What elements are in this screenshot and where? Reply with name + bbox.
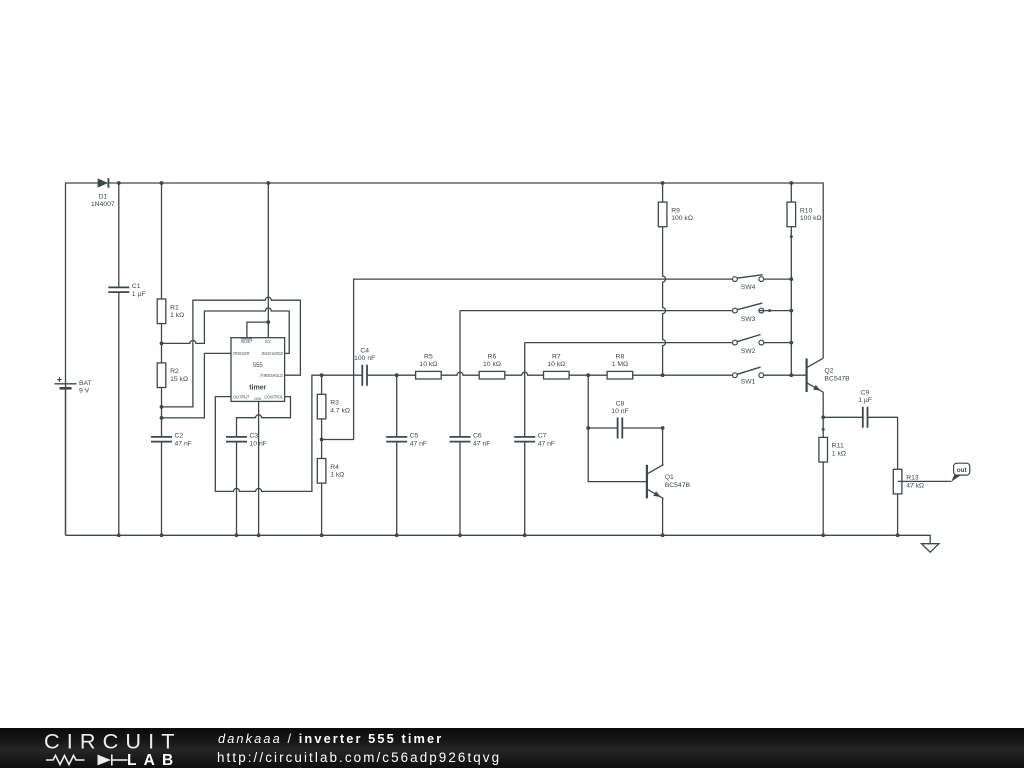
switch SW1 (733, 367, 764, 385)
node junction R8/R9/C8 (661, 373, 665, 377)
capacitor C3 (226, 433, 267, 448)
wire R9 top lead (662, 183, 664, 202)
wire R3/R4 junction to SW4 (322, 279, 733, 439)
wire V+ top rail (left segment to diode) (66, 183, 98, 535)
wire main line C4 to R5 (322, 374, 363, 376)
wire SW2 right wire (764, 342, 792, 344)
wire R3/R4 interlead (321, 419, 323, 459)
node junction OUTPUT riser / R3 / main line (320, 373, 324, 377)
svg-text:SW4: SW4 (741, 284, 756, 291)
svg-text:C7: C7 (538, 433, 547, 440)
svg-text:10 nF: 10 nF (611, 408, 628, 415)
node node R2/C2 trigger tap (160, 416, 164, 420)
svg-text:1N4007: 1N4007 (91, 201, 115, 208)
svg-text:555: 555 (253, 362, 263, 369)
svg-text:LAB: LAB (127, 752, 180, 768)
svg-text:R4: R4 (330, 464, 339, 471)
node junction 555 GND / ground rail (257, 533, 261, 537)
wire V+ top rail (diode to right end, down to Q2 collector) (108, 183, 823, 358)
svg-text:1 µF: 1 µF (132, 291, 146, 298)
svg-text:47 nF: 47 nF (175, 440, 192, 447)
svg-text:C2: C2 (175, 433, 184, 440)
svg-text:C6: C6 (473, 433, 482, 440)
svg-text:C3: C3 (250, 433, 259, 440)
node junction SW4 / bus (789, 277, 793, 281)
resistor R11 (819, 437, 846, 462)
footer title text (218, 732, 443, 745)
footer url text (217, 751, 501, 765)
node junction R9 / V+ rail (661, 181, 665, 185)
capacitor C7 (514, 433, 555, 448)
node junction VCC riser / V+ rail (266, 181, 270, 185)
svg-text:SW1: SW1 (741, 379, 756, 386)
svg-text:10 kΩ: 10 kΩ (547, 361, 565, 368)
node node C8 right / Q1 collector (661, 426, 665, 430)
resistor R9 (658, 202, 693, 227)
node junction C1 / ground rail (117, 533, 121, 537)
resistor R10 (787, 202, 822, 227)
wire R10 bottom lead / switch bus (790, 227, 792, 375)
svg-text:R9: R9 (671, 207, 680, 214)
wire R11 bottom lead (822, 462, 824, 535)
svg-text:SW3: SW3 (741, 316, 756, 323)
node node R1/R2 junction (160, 342, 164, 346)
node junction Q1 emitter / ground rail (661, 533, 665, 537)
wire Q1 collector lead (662, 428, 664, 465)
node junction R4 / ground rail (320, 533, 324, 537)
switch SW4 (733, 275, 764, 291)
transistor Q1 (BC547B) (647, 465, 691, 499)
wire SW2 tap riser / C7 branch (524, 343, 526, 437)
wire C6 bottom lead (459, 442, 461, 536)
svg-text:THRESHOLD: THRESHOLD (260, 373, 284, 378)
wire Q2 emitter lead (822, 392, 824, 417)
resistor R6 (479, 353, 505, 379)
resistor R3 (317, 394, 350, 419)
node junction R7/R8/Q1-base net (586, 373, 590, 377)
svg-text:R2: R2 (170, 368, 179, 375)
node junction SW1 / bus / Q2 base (789, 373, 793, 377)
wire 555 OUTPUT to main RC line (215, 375, 321, 491)
svg-text:R1: R1 (170, 304, 179, 311)
wire SW3 tap riser / C6 branch (459, 311, 461, 437)
node node R3/R4 junction (320, 438, 324, 442)
diode D1 1N4007 (91, 178, 115, 208)
svg-text:10 kΩ: 10 kΩ (419, 361, 437, 368)
wire node to R5 (397, 374, 416, 376)
resistor R8 (607, 353, 633, 379)
svg-text:10 nF: 10 nF (250, 440, 267, 447)
svg-text:R6: R6 (488, 353, 497, 360)
svg-text:47 kΩ: 47 kΩ (906, 482, 924, 489)
wire C4 to C5 node (367, 374, 397, 376)
svg-text:1 µF: 1 µF (858, 397, 872, 404)
node node R11 stub (822, 428, 825, 431)
svg-text:C1: C1 (132, 283, 141, 290)
wire R4 bottom lead (321, 483, 323, 535)
wire SW4 right wire (764, 278, 792, 280)
node node R2/C2 threshold tap (160, 405, 164, 409)
wire SW3 tap wire (460, 310, 733, 312)
node node C8 left (586, 426, 590, 430)
svg-text:1 kΩ: 1 kΩ (330, 472, 344, 479)
svg-text:47 nF: 47 nF (410, 440, 427, 447)
node junction C2 / ground rail (160, 533, 164, 537)
svg-text:VCC: VCC (265, 339, 272, 344)
svg-text:R7: R7 (552, 353, 561, 360)
node node R10 stub (790, 235, 793, 238)
svg-text:R3: R3 (330, 400, 339, 407)
svg-text:RESET: RESET (241, 339, 253, 344)
node junction C5 / ground rail (395, 533, 399, 537)
capacitor C2 (151, 433, 192, 448)
wire C8 left lead (588, 427, 617, 429)
svg-text:100 kΩ: 100 kΩ (671, 215, 693, 222)
svg-text:R5: R5 (424, 353, 433, 360)
svg-text:R13: R13 (906, 475, 919, 482)
svg-text:R8: R8 (616, 353, 625, 360)
wire R1 top lead (161, 183, 163, 299)
svg-text:DISCHARGE: DISCHARGE (262, 351, 284, 356)
wire R2/C2 tap to 555 THRESHOLD (162, 297, 301, 407)
wire R7/R8 node to Q1 base (588, 375, 647, 481)
capacitor C5 (386, 433, 427, 448)
wire C9 right lead to R13 (868, 417, 898, 469)
svg-text:47 nF: 47 nF (473, 440, 490, 447)
wire C1 top lead (118, 183, 120, 287)
wire 555 VCC riser (267, 183, 269, 338)
svg-text:4.7 kΩ: 4.7 kΩ (330, 407, 350, 414)
svg-text:C9: C9 (861, 390, 870, 397)
net flag "out" (951, 463, 969, 481)
node junction C3 / ground rail (235, 533, 239, 537)
wire SW2 tap wire (525, 342, 733, 344)
node junction R1 / V+ rail (160, 181, 164, 185)
wire R8 to SW1 (633, 374, 733, 376)
wire R3 top lead (321, 375, 323, 394)
svg-text:BC547B: BC547B (665, 482, 691, 489)
wire C3 bottom lead (236, 442, 238, 536)
svg-text:Q2: Q2 (824, 368, 833, 375)
svg-text:100 kΩ: 100 kΩ (800, 215, 822, 222)
node junction C1 / V+ rail (117, 181, 121, 185)
svg-text:1 kΩ: 1 kΩ (170, 312, 184, 319)
svg-text:10 kΩ: 10 kΩ (483, 361, 501, 368)
svg-text:D1: D1 (98, 194, 107, 201)
node node Q2 emitter / R11 / C9 (821, 415, 825, 419)
node junction SW2 / bus (789, 341, 793, 345)
svg-text:GND: GND (254, 397, 261, 401)
svg-text:1 kΩ: 1 kΩ (832, 451, 846, 458)
svg-text:BC547B: BC547B (824, 375, 850, 382)
svg-text:OUTPUT: OUTPUT (233, 395, 251, 400)
svg-text:15 kΩ: 15 kΩ (170, 376, 188, 383)
wire R6 to R7 (hop over C7 riser) (505, 372, 544, 375)
svg-text:C8: C8 (616, 400, 625, 407)
wire R11 top lead (822, 417, 824, 437)
wire R1 bottom lead (161, 324, 163, 344)
capacitor C1 (108, 283, 145, 298)
wire C5 top lead (396, 375, 398, 437)
resistor R4 (317, 459, 344, 484)
node junction C6 / ground rail (458, 533, 462, 537)
wire C7 bottom lead (524, 442, 526, 536)
node junction R13 / ground rail (896, 533, 900, 537)
capacitor C4 (354, 348, 375, 386)
wire SW3 right wire (759, 310, 792, 312)
resistor R2 (157, 363, 188, 388)
wire 555 GND lead (258, 401, 260, 535)
wire battery bottom lead (65, 388, 67, 535)
wire 555 CONTROL to C3 (237, 397, 291, 437)
wire C9 left lead (823, 416, 863, 418)
wire C1 bottom lead (118, 292, 120, 535)
wire wire to out flag (898, 480, 952, 482)
svg-text:100 nF: 100 nF (354, 355, 375, 362)
node node SW3 stub (768, 309, 771, 312)
wire R9 bottom lead (hops SW wires) (663, 227, 666, 375)
svg-text:BAT: BAT (79, 380, 92, 387)
svg-text:47 nF: 47 nF (538, 440, 555, 447)
wire C5 bottom lead (396, 442, 398, 536)
svg-text:TRIGGER: TRIGGER (233, 351, 250, 356)
wire C2 bottom lead (161, 442, 163, 536)
svg-text:R11: R11 (832, 443, 844, 450)
svg-text:CONTROL: CONTROL (264, 395, 283, 400)
node junction C4/R5/C5 (395, 373, 399, 377)
svg-text:out: out (957, 467, 968, 474)
switch SW2 (733, 335, 764, 356)
wire R2 bottom lead to C2 (161, 388, 163, 437)
wire R2/C2 tap to 555 TRIGGER (162, 353, 232, 418)
wire ground bottom rail (66, 535, 931, 543)
svg-text:CIRCUIT: CIRCUIT (44, 729, 182, 754)
node junction C7 / ground rail (523, 533, 527, 537)
wire R2 top lead (161, 343, 163, 363)
resistor R1 (157, 299, 184, 324)
svg-text:SW2: SW2 (741, 348, 756, 355)
node junction R11 / ground rail (821, 533, 825, 537)
svg-text:timer: timer (249, 383, 266, 392)
svg-text:R10: R10 (800, 207, 813, 214)
wire R7 to R8 (569, 374, 607, 376)
switch SW3 (733, 303, 764, 323)
wire SW1 right wire to Q2 base (764, 374, 807, 376)
svg-text:9 V: 9 V (79, 387, 90, 394)
resistor R7 (544, 353, 570, 379)
wire Q1 emitter lead (662, 499, 664, 536)
svg-text:Q1: Q1 (665, 474, 674, 481)
svg-text:1 MΩ: 1 MΩ (612, 361, 628, 368)
CircuitLab logo (0, 728, 200, 768)
wire R10 top lead (790, 183, 792, 202)
svg-text:C5: C5 (410, 433, 419, 440)
transistor Q2 (BC547B) (807, 358, 851, 392)
wire 555 RESET stub to VCC net (247, 322, 268, 338)
capacitor C9 (858, 390, 872, 428)
wire R1 junction to 555 DISCHARGE (162, 308, 290, 353)
capacitor C8 (611, 400, 628, 438)
capacitor C6 (450, 433, 491, 448)
resistor R5 (416, 353, 442, 379)
node junction R10 / V+ rail (789, 181, 793, 185)
node junction SW3 / bus (789, 309, 793, 313)
wire R13 bottom lead (897, 494, 899, 535)
node node RESET/VCC tie (266, 320, 270, 324)
resistor R13 (893, 469, 924, 494)
wire C8 right lead (622, 427, 662, 429)
wire R5 to R6 (hop over C6 riser) (441, 372, 479, 375)
ground symbol (922, 544, 939, 553)
IC 555 timer (231, 338, 285, 402)
battery BAT 9V (55, 377, 92, 394)
svg-text:C4: C4 (360, 348, 369, 355)
